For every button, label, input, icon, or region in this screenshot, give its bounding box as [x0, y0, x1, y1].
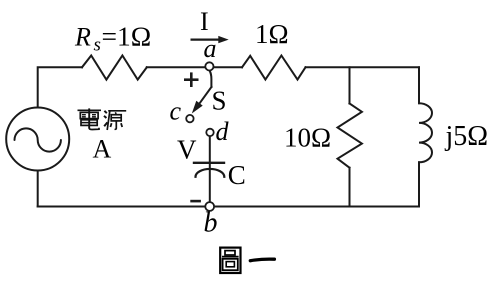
node d: [206, 129, 213, 136]
capacitor C top lead: [209, 136, 211, 168]
switch S blade: [198, 87, 211, 106]
svg-text:b: b: [204, 208, 218, 239]
svg-text:j5Ω: j5Ω: [445, 121, 489, 152]
inductor L1 j5ohm: [419, 103, 432, 162]
node a: [205, 62, 213, 70]
svg-text:R: R: [74, 23, 91, 52]
svg-text:C: C: [228, 160, 246, 190]
wire top-left (source top to resistor Rs): [38, 67, 82, 107]
wire 10ohm branch top: [349, 67, 351, 103]
source sine symbol: [15, 128, 61, 151]
label yi (one) of CJK 圖一: [250, 259, 274, 261]
svg-text:c: c: [170, 97, 182, 126]
wire inductor branch top: [418, 67, 420, 103]
wire Rs to node a: [147, 66, 210, 68]
wire inductor branch bottom: [418, 162, 420, 206]
capacitor C curved plate: [196, 169, 225, 177]
label tu (figure) of CJK 圖一: [220, 248, 240, 273]
svg-text:10Ω: 10Ω: [284, 123, 331, 153]
node c: [186, 115, 193, 122]
label yuan (origin) of CJK 電源: [104, 111, 126, 130]
source V1 circle: [6, 108, 69, 171]
svg-text:s: s: [94, 35, 101, 56]
svg-text:=1Ω: =1Ω: [102, 21, 152, 52]
wire bottom rail: [38, 206, 419, 208]
svg-text:A: A: [93, 135, 112, 164]
label dian (electric) of CJK 電源: [78, 108, 102, 129]
switch S lead from node a: [210, 71, 212, 87]
node b: [205, 202, 214, 211]
svg-text:V: V: [177, 134, 197, 164]
resistor Rs: [82, 56, 147, 80]
wire 10ohm branch bottom: [349, 168, 351, 207]
current I arrow: [191, 38, 221, 40]
capacitor C top plate: [194, 162, 224, 164]
resistor R3 10ohm: [338, 104, 362, 168]
wire top-right (resistor to corner): [306, 66, 420, 68]
svg-text:a: a: [204, 34, 217, 63]
label minus polarity: [190, 200, 201, 203]
capacitor C bottom lead: [209, 171, 211, 203]
switch S arrowhead at contact c: [192, 101, 203, 114]
svg-text:d: d: [216, 117, 230, 146]
svg-text:1Ω: 1Ω: [255, 19, 289, 49]
label + polarity: [184, 78, 199, 81]
resistor R2 1ohm: [242, 56, 306, 80]
wire bottom-left (source bottom to rail): [37, 171, 39, 207]
svg-text:I: I: [200, 7, 209, 36]
svg-text:S: S: [212, 86, 227, 116]
wire node a to resistor 1ohm: [210, 66, 243, 68]
